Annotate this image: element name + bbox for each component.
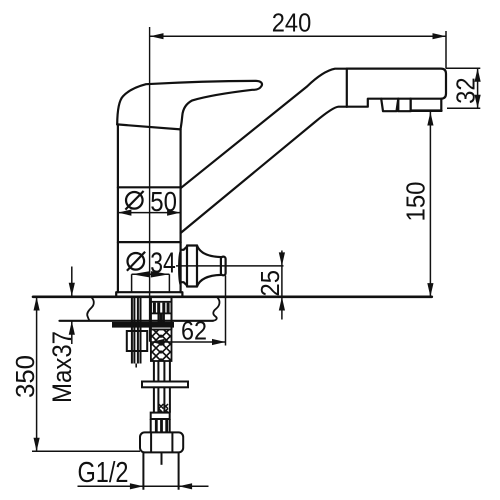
svg-text:350: 350 (12, 355, 40, 398)
svg-text:Max37: Max37 (47, 331, 77, 403)
svg-text:32: 32 (452, 77, 480, 104)
svg-text:240: 240 (272, 9, 312, 37)
svg-text:25: 25 (257, 270, 285, 297)
svg-text:G1/2: G1/2 (78, 457, 129, 489)
svg-text:50: 50 (150, 186, 177, 217)
svg-text:150: 150 (403, 182, 431, 222)
svg-text:62: 62 (181, 317, 207, 345)
svg-text:34: 34 (150, 247, 176, 279)
